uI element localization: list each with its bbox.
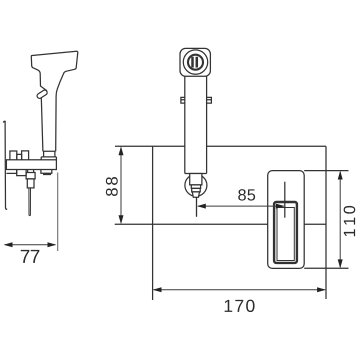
dimension 110 arrow down: [338, 259, 343, 268]
frame bottom reference line: [115, 223, 326, 225]
dimension 88 arrow up: [119, 146, 124, 155]
dimension 88: [120, 148, 122, 223]
wall plate rounded rect: [268, 171, 305, 269]
dimension 77: [5, 244, 55, 246]
front view head bar right: [196, 57, 199, 68]
front view holder ring: [185, 174, 207, 196]
side view nozzle nut: [26, 173, 35, 179]
front view body: [185, 76, 207, 173]
lever slot inner: [277, 208, 294, 261]
dimension 170 arrow left: [153, 287, 162, 292]
lever slot outer: [274, 202, 297, 263]
side view trigger hook: [40, 86, 47, 91]
front view nozzle section 1: [190, 174, 202, 185]
front view clip right: [207, 97, 212, 103]
dimension 85 value label: [238, 189, 255, 201]
side view outlet fitting under bar right: [41, 170, 52, 175]
dimension 77 arrow right: [48, 242, 57, 247]
front view nozzle section 3: [192, 188, 201, 192]
dimension 170 arrow right: [317, 287, 326, 292]
frame right vertical extension: [325, 146, 327, 299]
dimension 110 value label: [344, 206, 356, 236]
front view nozzle cone: [192, 192, 199, 197]
dimension 170 value label: [225, 300, 255, 312]
dimension 85 arrow right: [276, 204, 285, 209]
dimension 77 arrow left: [4, 242, 13, 247]
side view sprayer handle outline: [31, 51, 78, 151]
dimension 85 arrow left: [197, 204, 206, 209]
plate top extension line: [304, 170, 348, 172]
dimension 88 value label: [106, 177, 118, 196]
frame top reference line: [115, 145, 326, 147]
front view head bar left: [191, 57, 194, 68]
dimension 77 value label: [21, 250, 40, 263]
frame left vertical extension: [152, 146, 154, 300]
side view mount block B: [17, 154, 22, 159]
side view nozzle lower block: [27, 179, 34, 188]
front view nozzle section 2: [191, 185, 200, 189]
dimension 88 arrow down: [119, 215, 124, 224]
dimension 77 extension line: [57, 173, 59, 252]
dimension 170: [154, 289, 325, 291]
front view needle: [196, 197, 198, 217]
front view head rounded square: [180, 48, 210, 76]
dimension 110: [339, 172, 341, 267]
dimension 85: [198, 205, 284, 207]
side view needle: [29, 188, 31, 216]
side view mount block C: [22, 151, 29, 160]
side view block under bar: [17, 170, 26, 176]
side view valve bar body: [6, 160, 56, 170]
lever stem: [284, 182, 286, 218]
side view mount block A: [10, 151, 17, 160]
front view head inner circle: [188, 55, 203, 70]
dimension 110 arrow up: [338, 171, 343, 180]
side view handle bottom collar: [41, 151, 56, 160]
side view wall line: [3, 121, 7, 209]
plate bottom extension line: [304, 267, 348, 269]
side view nozzle fitting top: [28, 170, 34, 173]
side view ledge under bar: [6, 170, 16, 174]
front view clip left: [181, 97, 185, 103]
front view head outer circle: [183, 50, 207, 74]
